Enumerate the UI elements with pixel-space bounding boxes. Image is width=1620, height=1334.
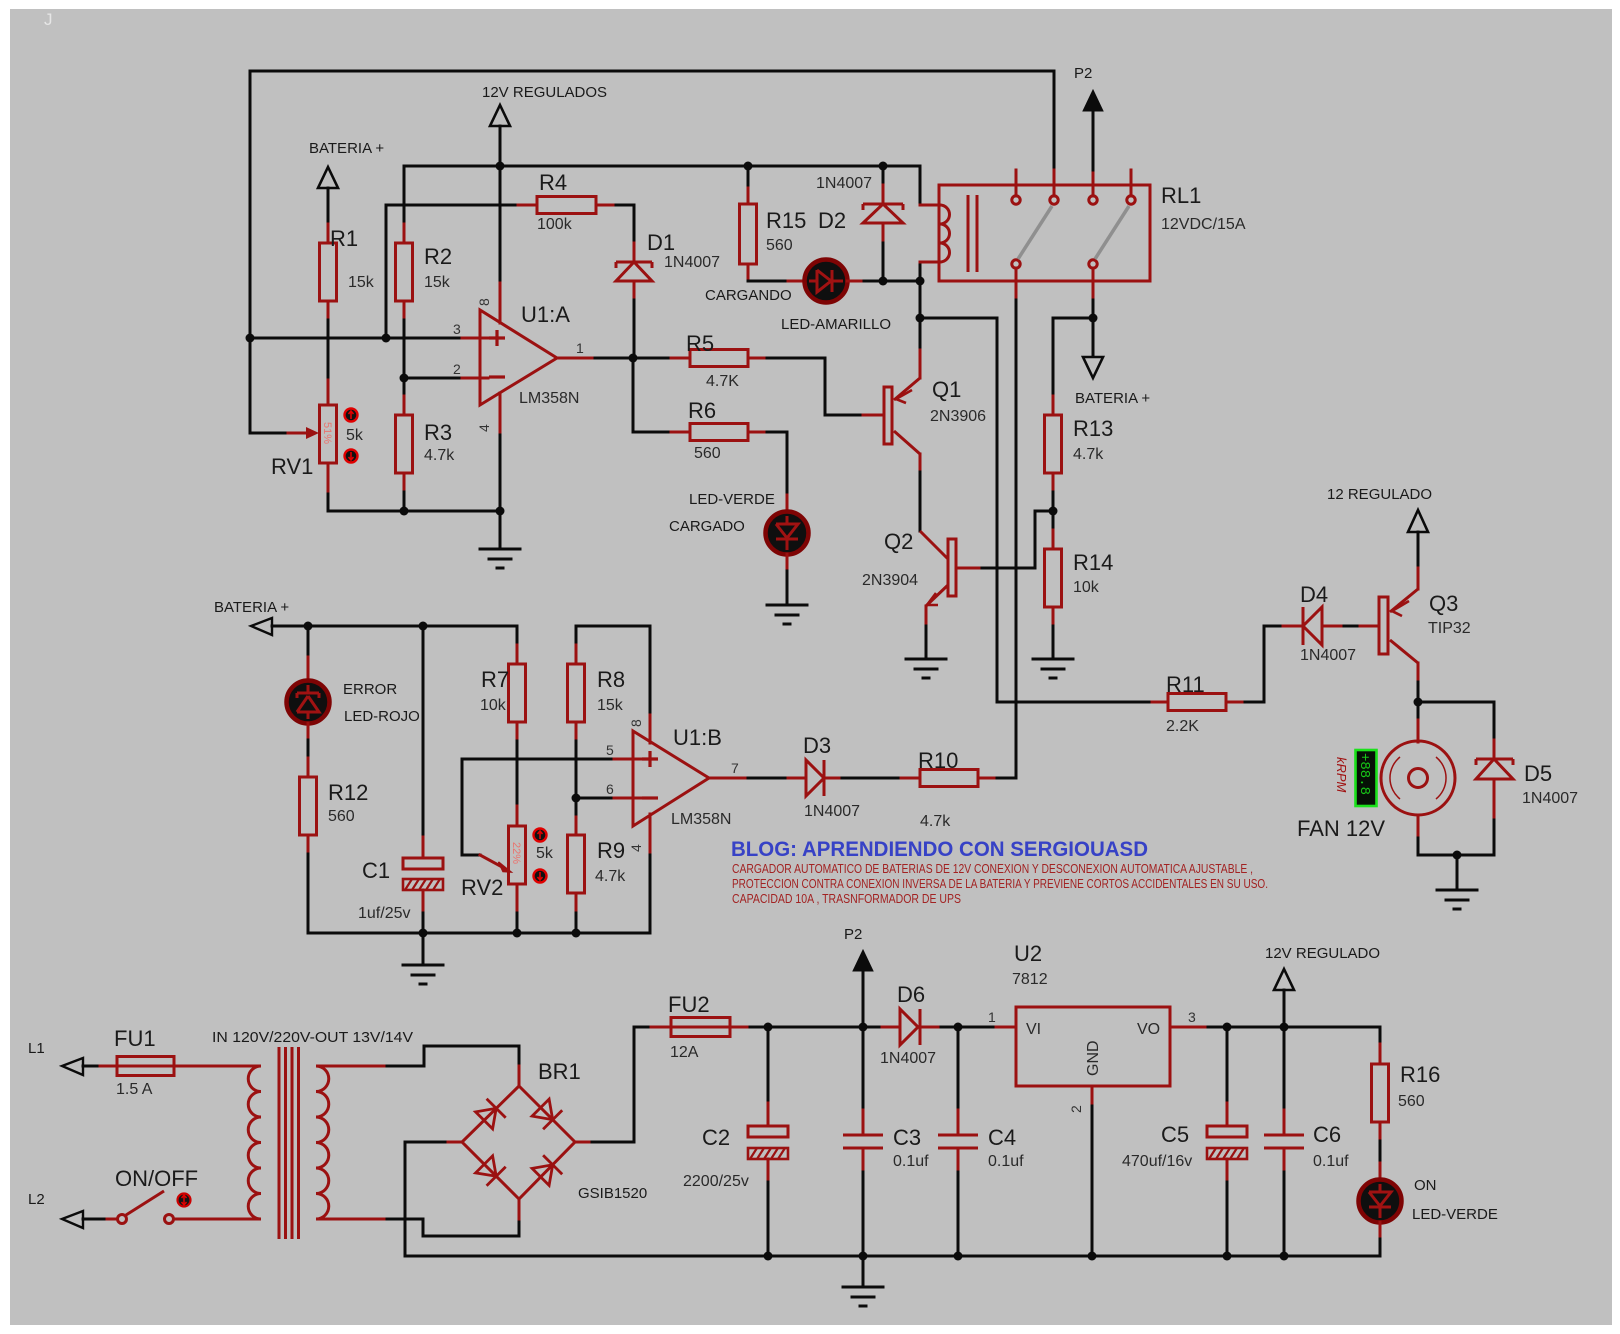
wire ERROR LED to R12 bbox=[307, 740, 310, 758]
svg-text:kRPM: kRPM bbox=[1334, 757, 1349, 793]
node C4 top bbox=[954, 1023, 963, 1032]
wire main DC rail bbox=[768, 1026, 882, 1029]
node gnd rail R9 bbox=[572, 929, 581, 938]
fan FAN 12V bbox=[1297, 720, 1455, 841]
resistor R7 bbox=[480, 626, 526, 741]
node pin2 junction bbox=[400, 374, 409, 383]
wire fan bottom rail bbox=[1418, 820, 1494, 855]
svg-text:1N4007: 1N4007 bbox=[804, 803, 860, 820]
svg-text:BR1: BR1 bbox=[538, 1059, 581, 1084]
svg-text:5: 5 bbox=[606, 742, 614, 758]
diode D6 bbox=[880, 982, 941, 1067]
transistor Q3 TIP32 bbox=[1360, 568, 1471, 682]
svg-text:4.7k: 4.7k bbox=[920, 813, 951, 830]
wire Q3 collector to fan node bbox=[1417, 682, 1420, 720]
svg-text:4: 4 bbox=[628, 844, 644, 852]
wire D1 to output node bbox=[633, 300, 636, 358]
wire D3 to R10 bbox=[842, 777, 901, 780]
svg-text:D1: D1 bbox=[647, 230, 675, 255]
wire R11 left lead bbox=[997, 701, 1149, 704]
svg-text:CARGADO: CARGADO bbox=[669, 518, 745, 535]
svg-text:8: 8 bbox=[476, 298, 492, 306]
capacitor C4 bbox=[938, 1027, 1024, 1172]
svg-text:2200/25v: 2200/25v bbox=[683, 1173, 749, 1190]
svg-text:D3: D3 bbox=[803, 733, 831, 758]
node battery-LED ERROR bbox=[304, 622, 313, 631]
node C6 top bbox=[1280, 1023, 1289, 1032]
wire branch to R11 column bbox=[920, 318, 997, 702]
svg-text:560: 560 bbox=[1398, 1093, 1425, 1110]
wire pin8 to VCC bbox=[499, 166, 502, 280]
node Q1 emitter branch bbox=[916, 314, 925, 323]
resistor R8 bbox=[568, 626, 651, 741]
resistor R6 bbox=[671, 398, 767, 462]
regulator U2 7812 bbox=[988, 941, 1208, 1113]
svg-text:10k: 10k bbox=[480, 697, 507, 714]
node gnd rail RV2 bbox=[513, 929, 522, 938]
resistor R5 bbox=[671, 331, 767, 390]
svg-text:15k: 15k bbox=[424, 274, 451, 291]
node rail C5 bbox=[1223, 1252, 1232, 1261]
node fan top bbox=[1414, 698, 1423, 707]
ground Q2 bbox=[906, 659, 946, 678]
svg-text:FU1: FU1 bbox=[114, 1026, 156, 1051]
wire node down to R13 bbox=[1052, 318, 1055, 396]
svg-text:22%: 22% bbox=[510, 842, 522, 864]
svg-text:CARGADOR AUTOMATICO DE BATERIA: CARGADOR AUTOMATICO DE BATERIAS DE 12V C… bbox=[732, 861, 1253, 876]
svg-text:1N4007: 1N4007 bbox=[664, 254, 720, 271]
wire VCC rail y166 bbox=[404, 165, 920, 168]
resistor R13 bbox=[1045, 396, 1114, 492]
svg-text:RL1: RL1 bbox=[1161, 183, 1201, 208]
node gnd rail pin4 bbox=[496, 507, 505, 516]
wire pin 3 rail bbox=[250, 337, 462, 340]
resistor R4 bbox=[518, 170, 616, 233]
svg-text:D6: D6 bbox=[897, 982, 925, 1007]
svg-text:+88.8: +88.8 bbox=[1356, 753, 1372, 795]
wire D6 to U2 bbox=[941, 1026, 996, 1029]
wire R1 to RV1 bbox=[327, 320, 330, 380]
wire D4 to Q3 base bbox=[1344, 625, 1360, 628]
svg-text:R16: R16 bbox=[1400, 1062, 1440, 1087]
wire VCC to R15 bbox=[747, 166, 750, 185]
wire RV2 to gnd rail bbox=[516, 913, 519, 933]
svg-text:LED-ROJO: LED-ROJO bbox=[344, 708, 420, 725]
wire output node down to R6 bbox=[633, 358, 671, 432]
diode D2 bbox=[816, 166, 903, 281]
terminal L2 bbox=[28, 1191, 107, 1228]
svg-text:D5: D5 bbox=[1524, 761, 1552, 786]
svg-text:BATERIA +: BATERIA + bbox=[309, 140, 384, 157]
resistor R11 bbox=[1149, 672, 1245, 735]
node rail C4 bbox=[954, 1252, 963, 1261]
wire Q2 emitter to ground bbox=[925, 626, 928, 658]
svg-text:1.5 A: 1.5 A bbox=[116, 1081, 153, 1098]
wire C2 to bottom rail bbox=[767, 1182, 770, 1256]
resistor R15 bbox=[740, 185, 807, 281]
svg-text:6: 6 bbox=[606, 781, 614, 797]
wire to R16 bbox=[1379, 1027, 1382, 1044]
svg-text:2.2K: 2.2K bbox=[1166, 718, 1199, 735]
power BATERIA + (middle left arrow) bbox=[214, 599, 308, 635]
wire LED CARGANDO to D2 node bbox=[864, 280, 920, 283]
svg-text:R4: R4 bbox=[539, 170, 567, 195]
node rail C6 bbox=[1280, 1252, 1289, 1261]
wire R10 to relay contact column bbox=[997, 777, 1016, 780]
svg-text:LED-AMARILLO: LED-AMARILLO bbox=[781, 316, 891, 333]
svg-text:PROTECCION CONTRA CONEXION INV: PROTECCION CONTRA CONEXION INVERSA DE LA… bbox=[732, 876, 1268, 891]
svg-text:2: 2 bbox=[453, 361, 461, 377]
wire op-amp output bbox=[595, 357, 633, 360]
svg-text:FAN 12V: FAN 12V bbox=[1297, 816, 1385, 841]
resistor R14 bbox=[1045, 530, 1114, 626]
ground R14 bbox=[1033, 659, 1073, 678]
wire R2 top to VCC rail bbox=[403, 166, 406, 224]
capacitor C1 bbox=[358, 626, 443, 922]
wire C5 to rail bbox=[1226, 1182, 1229, 1256]
node VCC-R15 bbox=[744, 162, 753, 171]
svg-text:C2: C2 bbox=[702, 1125, 730, 1150]
LED D-AMARILLO CARGANDO bbox=[705, 260, 891, 334]
svg-text:CARGANDO: CARGANDO bbox=[705, 287, 792, 304]
wire C1 to gnd rail bbox=[422, 913, 425, 933]
wire R6 to LED CARGADO bbox=[767, 432, 787, 495]
svg-text:1N4007: 1N4007 bbox=[880, 1050, 936, 1067]
wire secondary bottom to bridge bbox=[387, 1219, 519, 1236]
svg-text:4.7k: 4.7k bbox=[424, 447, 455, 464]
svg-text:15k: 15k bbox=[597, 697, 624, 714]
wire pin6 input bbox=[576, 797, 614, 800]
svg-text:LED-VERDE: LED-VERDE bbox=[689, 491, 775, 508]
svg-text:R3: R3 bbox=[424, 420, 452, 445]
node pin3 rail dot left bbox=[246, 334, 255, 343]
power 12 REGULADO bbox=[1327, 486, 1432, 568]
wire R9 to gnd rail bbox=[575, 913, 578, 933]
fuse FU1 bbox=[100, 1026, 253, 1098]
svg-text:0.1uf: 0.1uf bbox=[1313, 1153, 1349, 1170]
svg-text:4.7k: 4.7k bbox=[595, 868, 626, 885]
svg-text:R11: R11 bbox=[1166, 672, 1205, 697]
wire C6 to rail bbox=[1283, 1172, 1286, 1256]
resistor R16 bbox=[1372, 1044, 1441, 1141]
svg-text:R13: R13 bbox=[1073, 416, 1113, 441]
svg-text:5k: 5k bbox=[346, 427, 364, 444]
svg-text:VO: VO bbox=[1137, 1021, 1160, 1038]
wire battery rail middle bbox=[308, 625, 517, 628]
svg-text:VI: VI bbox=[1026, 1021, 1041, 1038]
svg-text:D4: D4 bbox=[1300, 582, 1328, 607]
wire Q2 collector to R13-R14 node bbox=[982, 511, 1053, 568]
wire LED ON to rail bbox=[1379, 1239, 1382, 1256]
wire R11 to D4 bbox=[1245, 626, 1283, 702]
svg-text:BATERIA +: BATERIA + bbox=[214, 599, 289, 616]
wire U1:B output to D3 bbox=[748, 777, 788, 780]
svg-text:R12: R12 bbox=[328, 780, 368, 805]
svg-text:U2: U2 bbox=[1014, 941, 1042, 966]
wire relay pin6 to BATERIA node bbox=[1092, 300, 1095, 318]
resistor R3 bbox=[396, 396, 456, 492]
node R4 branch on pin3 rail bbox=[382, 334, 391, 343]
node gnd rail R3 bbox=[400, 507, 409, 516]
svg-text:4: 4 bbox=[476, 424, 492, 432]
svg-text:D2: D2 bbox=[818, 208, 846, 233]
fuse FU2 bbox=[651, 992, 750, 1061]
svg-text:1: 1 bbox=[988, 1009, 996, 1025]
svg-text:C6: C6 bbox=[1313, 1122, 1341, 1147]
capacitor C2 bbox=[683, 1027, 788, 1190]
svg-text:FU2: FU2 bbox=[668, 992, 710, 1017]
ground U1:A bbox=[480, 511, 520, 568]
node VCC-D2 bbox=[879, 162, 888, 171]
svg-text:12V REGULADO: 12V REGULADO bbox=[1265, 945, 1380, 962]
svg-text:R2: R2 bbox=[424, 244, 452, 269]
power P2 (bottom) bbox=[844, 926, 873, 1027]
wire R4 feedback branch bbox=[386, 205, 518, 338]
wire Q1 collector to Q2 base bbox=[919, 472, 922, 531]
wire U2 out to nodes bbox=[1208, 1026, 1380, 1029]
wire C4 to rail bbox=[957, 1172, 960, 1256]
svg-text:Q2: Q2 bbox=[884, 529, 913, 554]
svg-text:10k: 10k bbox=[1073, 579, 1100, 596]
relay RL1 bbox=[920, 170, 1246, 300]
svg-text:C4: C4 bbox=[988, 1125, 1016, 1150]
svg-text:7: 7 bbox=[731, 760, 739, 776]
svg-text:0.1uf: 0.1uf bbox=[988, 1153, 1024, 1170]
wire VCC corner to relay coil top bbox=[919, 166, 922, 205]
LED D-ROJO ERROR bbox=[287, 626, 420, 740]
svg-text:12 REGULADO: 12 REGULADO bbox=[1327, 486, 1432, 503]
wire R2 to pin2 node bbox=[403, 320, 406, 396]
node fan gnd bbox=[1453, 851, 1462, 860]
wire pin 2 input bbox=[404, 377, 462, 380]
power BATERIA + (down arrow) bbox=[1075, 318, 1150, 407]
svg-text:R7: R7 bbox=[481, 667, 509, 692]
wire node to R13 bbox=[1053, 317, 1093, 320]
svg-text:LM358N: LM358N bbox=[519, 390, 579, 407]
svg-text:560: 560 bbox=[766, 237, 793, 254]
wire top rail from left column to relay pin 2 bbox=[250, 71, 1054, 170]
svg-text:Q1: Q1 bbox=[932, 377, 961, 402]
node rail C3-gnd bbox=[859, 1252, 868, 1261]
wire fan node to D5 bbox=[1418, 702, 1494, 740]
resistor R9 bbox=[568, 798, 627, 913]
wire node to Q1 emitter column bbox=[919, 281, 922, 350]
svg-text:2: 2 bbox=[1068, 1105, 1084, 1113]
node rail U2 bbox=[1088, 1252, 1097, 1261]
svg-text:CAPACIDAD 10A , TRASNFORMADOR: CAPACIDAD 10A , TRASNFORMADOR DE UPS bbox=[732, 891, 961, 906]
node gnd rail C1 bbox=[419, 929, 428, 938]
power 12V REGULADO (bottom) bbox=[1265, 945, 1380, 1027]
svg-text:8: 8 bbox=[628, 719, 644, 727]
wire RV1 bottom to gnd rail bbox=[328, 494, 500, 511]
ground LED CARGADO bbox=[767, 605, 807, 624]
svg-text:51%: 51% bbox=[321, 422, 333, 444]
svg-text:C5: C5 bbox=[1161, 1122, 1189, 1147]
svg-text:P2: P2 bbox=[844, 926, 862, 943]
wire R12 to gnd rail bbox=[308, 854, 650, 933]
resistor R2 bbox=[396, 224, 453, 320]
svg-text:4.7k: 4.7k bbox=[1073, 446, 1104, 463]
svg-text:R1: R1 bbox=[330, 226, 358, 251]
node P2-C3 bbox=[859, 1023, 868, 1032]
svg-text:R8: R8 bbox=[597, 667, 625, 692]
switch ON/OFF bbox=[107, 1166, 253, 1224]
svg-text:1N4007: 1N4007 bbox=[816, 175, 872, 192]
node rail C2 bbox=[764, 1252, 773, 1261]
wire pin5 input bbox=[462, 758, 614, 761]
node R13-R14 bbox=[1049, 507, 1058, 516]
svg-text:560: 560 bbox=[694, 445, 721, 462]
svg-text:7812: 7812 bbox=[1012, 971, 1048, 988]
wire output to R5 bbox=[633, 357, 671, 360]
svg-text:ERROR: ERROR bbox=[343, 681, 397, 698]
wire R5 to Q1 base bbox=[767, 358, 863, 415]
potentiometer RV1 bbox=[271, 380, 364, 494]
wire R8 to pin6 node bbox=[575, 741, 578, 817]
power P2 (top) bbox=[1074, 65, 1103, 170]
svg-text:LED-VERDE: LED-VERDE bbox=[1412, 1206, 1498, 1223]
svg-text:J: J bbox=[44, 10, 53, 29]
transformer TR1 bbox=[212, 1029, 413, 1239]
node D2 anode bbox=[879, 277, 888, 286]
svg-text:R5: R5 bbox=[686, 331, 714, 356]
wire pin4 to gnd rail bbox=[499, 435, 502, 511]
capacitor C3 bbox=[843, 1027, 929, 1172]
LED D-VERDE ON bbox=[1359, 1163, 1498, 1239]
resistor R10 bbox=[901, 748, 997, 830]
op-amp U1:B bbox=[606, 715, 748, 855]
ground bottom rail bbox=[843, 1256, 883, 1306]
svg-text:R9: R9 bbox=[597, 838, 625, 863]
node VCC-pin8 bbox=[496, 162, 505, 171]
display kRPM bbox=[1334, 750, 1377, 806]
node output U1:A bbox=[629, 354, 638, 363]
svg-text:15k: 15k bbox=[348, 274, 375, 291]
svg-text:12V REGULADOS: 12V REGULADOS bbox=[482, 84, 607, 101]
svg-text:1N4007: 1N4007 bbox=[1522, 790, 1578, 807]
svg-text:C3: C3 bbox=[893, 1125, 921, 1150]
svg-text:3: 3 bbox=[453, 321, 461, 337]
svg-text:12A: 12A bbox=[670, 1044, 699, 1061]
terminal L1 bbox=[28, 1040, 100, 1075]
power 12V REGULADOS bbox=[482, 84, 607, 166]
potentiometer RV2 bbox=[461, 759, 554, 913]
transistor Q1 2N3906 bbox=[863, 350, 986, 472]
node coil bottom bbox=[916, 277, 925, 286]
wire FU2 to C2 node bbox=[750, 1026, 768, 1029]
svg-text:1: 1 bbox=[576, 340, 584, 356]
svg-text:R14: R14 bbox=[1073, 550, 1113, 575]
diode D1 bbox=[616, 230, 720, 300]
wire bridge minus to bottom rail bbox=[405, 1142, 445, 1256]
diode D4 bbox=[1283, 582, 1356, 664]
svg-text:U1:B: U1:B bbox=[673, 725, 722, 750]
wire R7 to RV2 bbox=[516, 741, 519, 806]
svg-text:RV2: RV2 bbox=[461, 875, 503, 900]
node C2 top bbox=[764, 1023, 773, 1032]
svg-text:BATERIA +: BATERIA + bbox=[1075, 390, 1150, 407]
svg-text:ON: ON bbox=[1414, 1177, 1437, 1194]
diode D3 bbox=[788, 733, 860, 820]
text blog description bbox=[732, 861, 1268, 906]
wire R3 to gnd rail bbox=[403, 492, 406, 511]
wire bridge plus to FU2 bbox=[592, 1027, 651, 1142]
wire R4 to D1 bbox=[616, 205, 634, 243]
svg-text:560: 560 bbox=[328, 808, 355, 825]
transistor Q2 2N3904 bbox=[862, 529, 982, 626]
wire C3 to rail bbox=[862, 1172, 865, 1256]
svg-text:ON/OFF: ON/OFF bbox=[115, 1166, 198, 1191]
node pin6 junction bbox=[572, 794, 581, 803]
wire U2 gnd pin to rail bbox=[1091, 1106, 1094, 1256]
diode D5 bbox=[1476, 740, 1578, 820]
svg-text:BLOG: APRENDIENDO CON SERGIOUA: BLOG: APRENDIENDO CON SERGIOUASD bbox=[731, 838, 1148, 861]
svg-text:12VDC/15A: 12VDC/15A bbox=[1161, 216, 1246, 233]
power BATERIA + (top) bbox=[309, 140, 384, 224]
wire relay pin5 to R10 column bbox=[1015, 300, 1018, 778]
wire pin4 U1:B to gnd rail bbox=[649, 855, 652, 933]
svg-text:IN 120V/220V-OUT 13V/14V: IN 120V/220V-OUT 13V/14V bbox=[212, 1029, 413, 1046]
svg-text:LM358N: LM358N bbox=[671, 811, 731, 828]
svg-text:U1:A: U1:A bbox=[521, 302, 570, 327]
svg-text:3: 3 bbox=[1188, 1009, 1196, 1025]
wire bottom ground rail bbox=[405, 1255, 1380, 1258]
svg-text:L1: L1 bbox=[28, 1040, 45, 1057]
svg-text:TIP32: TIP32 bbox=[1428, 620, 1471, 637]
svg-text:2N3904: 2N3904 bbox=[862, 572, 918, 589]
node battery-C1 bbox=[419, 622, 428, 631]
svg-text:1uf/25v: 1uf/25v bbox=[358, 905, 410, 922]
wire R14 to ground bbox=[1052, 626, 1055, 658]
svg-text:GND: GND bbox=[1085, 1040, 1102, 1076]
node C5 top bbox=[1223, 1023, 1232, 1032]
svg-text:470uf/16v: 470uf/16v bbox=[1122, 1153, 1192, 1170]
svg-text:Q3: Q3 bbox=[1429, 591, 1458, 616]
svg-text:P2: P2 bbox=[1074, 65, 1092, 82]
wire left vertical to RV1 wiper bbox=[250, 71, 288, 433]
capacitor C5 bbox=[1122, 1027, 1247, 1182]
svg-text:5k: 5k bbox=[536, 845, 554, 862]
svg-text:R6: R6 bbox=[688, 398, 716, 423]
wire secondary top to bridge bbox=[387, 1046, 519, 1066]
svg-text:R10: R10 bbox=[918, 748, 958, 773]
ground fan bbox=[1437, 855, 1477, 909]
resistor R12 bbox=[300, 758, 369, 854]
bridge rectifier BR1 bbox=[445, 1059, 647, 1219]
svg-text:100k: 100k bbox=[537, 216, 573, 233]
wire R13 to node bbox=[1052, 492, 1055, 530]
svg-text:RV1: RV1 bbox=[271, 454, 313, 479]
wire coil bottom corner bbox=[919, 263, 922, 281]
svg-text:2N3906: 2N3906 bbox=[930, 408, 986, 425]
node BATERIA branch bbox=[1089, 314, 1098, 323]
svg-text:R15: R15 bbox=[766, 208, 806, 233]
svg-text:4.7K: 4.7K bbox=[706, 373, 739, 390]
svg-text:1N4007: 1N4007 bbox=[1300, 647, 1356, 664]
svg-text:0.1uf: 0.1uf bbox=[893, 1153, 929, 1170]
wire R16 to LED ON bbox=[1379, 1141, 1382, 1163]
capacitor C6 bbox=[1264, 1027, 1349, 1172]
svg-text:GSIB1520: GSIB1520 bbox=[578, 1185, 647, 1202]
op-amp U1:A bbox=[453, 280, 595, 435]
svg-text:L2: L2 bbox=[28, 1191, 45, 1208]
ground middle rail bbox=[403, 933, 443, 984]
svg-text:C1: C1 bbox=[362, 858, 390, 883]
LED D-VERDE CARGADO bbox=[669, 491, 809, 571]
wire LED CARGADO to ground bbox=[786, 571, 789, 604]
resistor R1 bbox=[320, 224, 375, 320]
